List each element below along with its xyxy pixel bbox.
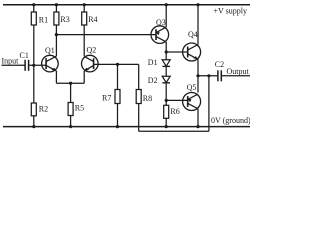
svg-text:Q4: Q4 [188,30,198,39]
svg-text:C2: C2 [215,60,224,69]
node feedback tap on output wire [207,74,210,77]
node R4 top on +V rail [83,3,86,6]
svg-text:R1: R1 [39,15,48,24]
wire Q2 base to feedback node [94,63,139,65]
node Q3 emitter on +V rail [165,3,168,6]
wire D2 to Q5 base node [165,83,167,101]
wire to Q4 base [166,51,188,53]
node R1 top on +V rail [32,3,35,6]
0V ground rail [3,126,250,128]
svg-text:D2: D2 [148,76,158,85]
node R5 bottom on 0V rail [69,125,72,128]
svg-text:R8: R8 [143,94,152,103]
wire C1 to Q1 base [29,64,46,66]
svg-text:Q2: Q2 [87,46,97,55]
svg-text:R4: R4 [88,15,97,24]
node D2/R6/Q5 base [165,99,168,102]
svg-text:+V supply: +V supply [214,6,247,15]
node emitter bus to R5 [69,82,72,85]
wire R3 bottom to Q1 collector [55,25,57,56]
node Q2 base to R7 [116,63,119,66]
capacitor C2 [215,60,224,81]
wire input node to R2 [33,65,35,103]
wire Q3 collector down to D1 [165,42,167,60]
resistor R3 [54,5,70,25]
resistor R8 (feedback) [136,64,152,131]
svg-text:C1: C1 [20,51,29,60]
svg-text:Q5: Q5 [187,83,197,92]
wire Q3 emitter to +V rail [165,5,167,28]
wire R4 bottom to Q2 collector [83,25,85,56]
svg-text:R6: R6 [170,107,179,116]
capacitor C1 [20,51,29,71]
wire Q4 collector to +V rail [197,5,199,45]
svg-text:R5: R5 [75,104,84,113]
transistor Q4 [183,30,201,61]
wire C2 to output terminal [221,75,250,77]
wire input to C1 [2,64,26,66]
wire Q1 emitter down [55,71,57,83]
svg-text:Output: Output [227,67,250,76]
transistor Q1 [42,46,59,72]
node output at Q4/Q5 emitters [196,74,199,77]
wire Q5 collector to 0V rail [197,109,199,127]
node Q3 collector to Q4 base branch [165,50,168,53]
node R6 bottom on 0V rail [165,125,168,128]
resistor R2 [31,103,48,127]
+V supply rail [3,4,250,6]
feedback riser to output node [208,76,210,132]
transistor Q3 [151,18,169,43]
svg-text:Q1: Q1 [45,46,55,55]
output wire [198,75,218,77]
svg-text:D1: D1 [148,58,158,67]
wire D1 to D2 [165,66,167,76]
feedback wire R8 bottom to output node [139,130,209,132]
node Q1 collector to Q3 base branch [55,33,58,36]
svg-text:0V (ground): 0V (ground) [211,116,250,125]
diode D2 [148,76,170,85]
resistor R7 [102,64,120,126]
transistor Q2 [82,46,99,72]
svg-text:R7: R7 [102,94,111,103]
emitter bus wire Q1-Q2 [56,82,84,84]
node at Q1 base / R1-R2 junction [32,64,35,67]
resistor R5 [68,83,84,126]
wire Q4 emitter down to output node and Q5 emitter [197,59,199,92]
node R7 bottom on 0V rail [116,125,119,128]
resistor R1 [31,5,48,25]
svg-text:R3: R3 [60,15,69,24]
wire R1 bottom to input node [33,25,35,65]
wire Q1 collector to Q3 base [56,34,155,36]
svg-text:Input: Input [2,57,20,66]
resistor R4 [82,5,98,25]
node Q4 collector on +V rail [196,3,199,6]
node R3 top on +V rail [55,3,58,6]
wire node to Q5 base [166,99,188,101]
node Q5 collector on 0V rail [196,125,199,128]
svg-text:R2: R2 [39,104,48,113]
resistor R6 [164,100,180,126]
diode D1 [148,58,170,67]
transistor Q5 [183,83,201,111]
node R2 bottom on 0V rail [32,125,35,128]
wire Q2 emitter down [83,71,85,83]
